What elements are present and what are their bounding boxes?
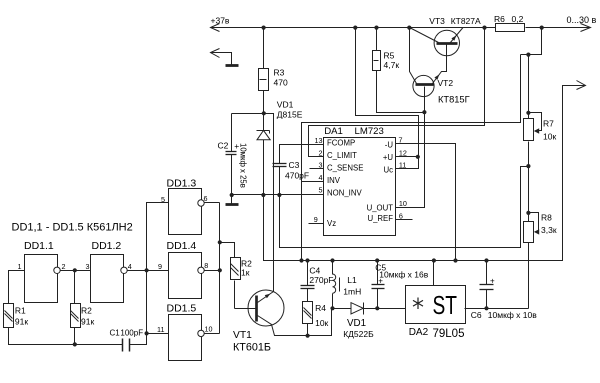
svg-text:+: + [490,277,495,286]
svg-text:7: 7 [399,136,403,145]
wire pin13 FCOMP to C3 [280,145,324,164]
svg-text:91к: 91к [81,317,94,327]
svg-text:U_OUT: U_OUT [367,204,394,213]
IC DA1 pin numbers [314,136,407,225]
svg-text:DD1,1 - DD1.5 К561ЛН2: DD1,1 - DD1.5 К561ЛН2 [12,222,133,234]
capacitor C4 [307,261,309,286]
wire R3 top lead [263,28,265,69]
svg-text:1к: 1к [241,267,250,277]
svg-text:12: 12 [399,149,407,158]
svg-text:5: 5 [161,195,165,204]
capacitor C2 [231,114,233,152]
gate DD1.2 [91,255,124,303]
capacitor C1 [122,339,124,352]
svg-text:4: 4 [319,173,323,182]
svg-text:10мкф x 10в: 10мкф x 10в [488,310,537,320]
svg-text:10к: 10к [543,132,556,142]
svg-text:C_SENSE: C_SENSE [327,164,363,173]
resistor R2 91k [71,304,81,328]
wire DD1.5 output [205,333,220,335]
gate pin numbers [18,194,213,334]
wire DD1.4 output [205,270,220,272]
wire R7 bottom to R8 [528,142,530,222]
wire DD1.3 output [205,202,220,204]
svg-text:2: 2 [319,148,323,157]
wire R2 91k top lead [74,271,76,304]
inductor L1 [332,261,334,275]
wire R5 top lead [376,28,378,51]
wire DD1.2 out to DD1.4 in [128,270,169,272]
transistor VT2 [413,75,434,96]
svg-text:+37в: +37в [211,16,230,26]
wire DD1.1 out to DD1.2 in [61,270,91,272]
svg-text:8: 8 [204,261,208,270]
wire +37v rail [211,27,496,29]
svg-text:VT2: VT2 [438,78,454,88]
svg-text:DD1.4: DD1.4 [167,240,197,252]
svg-text:100pF: 100pF [120,329,143,338]
regulator DA2 79L05 box [406,286,466,324]
svg-text:3,3к: 3,3к [541,225,557,235]
svg-text:C2: C2 [218,141,229,151]
svg-text:R6: R6 [494,14,505,24]
svg-text:VD1: VD1 [277,100,294,110]
svg-text:L1: L1 [347,275,357,285]
svg-text:3: 3 [86,262,90,271]
wire gate input bus [130,203,169,345]
svg-text:VD1: VD1 [347,318,366,329]
svg-text:1: 1 [18,262,22,271]
svg-text:VT3: VT3 [429,16,445,26]
wire pin10 U_OUT to VT2 base node [396,113,425,208]
svg-text:91к: 91к [15,317,28,327]
svg-text:10: 10 [399,199,407,208]
gate DD1.3 [169,189,202,235]
wire ground net horizontal [232,194,324,196]
svg-text:VT1: VT1 [233,330,252,341]
svg-text:U_REF: U_REF [367,214,393,223]
svg-text:R4: R4 [315,303,326,313]
resistor R1 [4,304,14,328]
wire pin11 stub [396,157,419,169]
svg-text:0,2: 0,2 [512,14,524,24]
svg-text:5: 5 [319,186,323,195]
node right output arrow [577,81,586,90]
wire common arrow stub [211,53,232,65]
svg-text:DD1.2: DD1.2 [92,240,122,252]
resistor R5 [373,51,381,71]
capacitor C3 [273,163,287,165]
svg-text:Uc: Uc [383,165,393,174]
op-amp DA1 LM723 body [324,138,396,236]
wire R5 bottom to VT2 base node [377,71,425,113]
svg-text:10мкф x 25в: 10мкф x 25в [239,143,248,188]
wire gate output bus [219,203,221,334]
resistor R3 [259,69,269,91]
svg-text:Vz: Vz [327,219,336,228]
svg-text:C1: C1 [110,329,121,338]
wire R2 bottom to VT1 base [234,281,236,309]
wire DA2 gnd pin [433,261,435,286]
svg-text:-U: -U [385,140,394,149]
svg-text:DD1.1: DD1.1 [24,240,54,252]
svg-text:10к: 10к [315,318,328,328]
svg-text:R7: R7 [543,119,554,129]
svg-text:79L05: 79L05 [433,328,465,340]
svg-text:DD1.5: DD1.5 [167,303,197,315]
node +37v input arrow [211,24,220,32]
wire R8 bottom lead [528,243,530,309]
svg-text:+U: +U [383,153,394,162]
wire node to VT1 emitter riser [264,114,274,292]
svg-text:NON_INV: NON_INV [327,189,362,198]
svg-text:R3: R3 [274,68,285,78]
svg-text:КТ827А: КТ827А [451,16,481,26]
wire R2 91k bottom lead [74,328,76,345]
svg-text:6: 6 [204,194,208,203]
svg-text:C6: C6 [471,310,482,320]
wire pin4 INV stub [302,181,324,183]
svg-text:470pF: 470pF [285,171,309,181]
node output arrow 0..30v [581,24,591,32]
svg-text:9: 9 [314,215,318,224]
svg-text:КД522Б: КД522Б [343,329,374,339]
svg-text:R8: R8 [541,213,552,223]
diode VD1 zener D815E [263,114,265,131]
wire R4 bottom lead [307,324,309,336]
svg-text:КТ815Г: КТ815Г [438,95,470,105]
svg-text:ST: ST [433,290,458,320]
svg-text:C_LIMIT: C_LIMIT [327,151,357,160]
svg-text:КТ601Б: КТ601Б [233,342,271,354]
wire R6 right to sense node [521,28,542,55]
transistor VT3 [434,30,459,55]
wire R3 bottom lead [263,91,265,114]
ground [231,195,233,204]
wire output rail after R6 [526,27,591,29]
capacitor C6 [486,261,488,285]
svg-text:13: 13 [315,136,323,145]
svg-text:DA1: DA1 [324,126,343,137]
regulator DA2 asterisk [413,298,423,310]
svg-text:INV: INV [327,176,341,185]
svg-text:470: 470 [274,78,288,88]
svg-text:11: 11 [157,325,164,334]
svg-text:FCOMP: FCOMP [327,138,355,147]
wire pin2 C_LIMIT loop to gnd rail [309,28,485,157]
svg-text:6: 6 [399,212,403,221]
wire pin11 stub [147,333,169,335]
svg-text:0...30 в: 0...30 в [567,15,597,25]
svg-text:11: 11 [399,161,406,170]
svg-text:10мкф x 16в: 10мкф x 16в [379,269,428,279]
wire DA2 output to R8 [465,308,529,310]
svg-text:DD1.3: DD1.3 [167,178,197,190]
wire R2 top from gate bus [220,243,235,258]
wire node to C2 [232,113,264,115]
ground [226,64,239,67]
wire pin7 -U to rail [396,144,456,261]
svg-text:9: 9 [158,262,162,271]
transistor VT1 [248,290,284,326]
svg-text:DA2: DA2 [409,327,429,338]
svg-text:270pF: 270pF [309,275,333,285]
diode VD1 KD522B [333,308,351,310]
svg-text:4: 4 [128,262,132,271]
svg-text:3: 3 [319,161,323,170]
svg-text:1mH: 1mH [343,287,361,297]
wire gnd rail2 [264,86,586,261]
wire supply to pins 12,11 [356,28,419,157]
wire gnd rail1 [280,167,529,248]
resistor R2 1k [231,258,241,280]
resistor R4 [303,302,313,324]
IC DA1 left pin names [327,138,393,228]
wire pin6 U_REF stub [396,219,413,221]
resistor R6 [496,24,525,32]
gate DD1.4 [169,253,202,299]
capacitor C5 [377,261,379,285]
svg-text:10: 10 [205,324,213,333]
svg-text:R2: R2 [81,306,92,316]
wire pin9 Vz stub [309,223,324,225]
svg-text:C3: C3 [289,160,300,170]
wire sense line to INV pin4 [302,55,521,261]
gate DD1.1 [25,255,58,303]
svg-text:LM723: LM723 [355,126,384,137]
wire sense node to R7 [528,55,530,119]
svg-text:2: 2 [62,262,66,271]
wire pin12 stub [396,156,418,158]
svg-text:Д815Е: Д815Е [277,110,303,120]
wire pin1 to R1 [9,271,25,304]
svg-text:R1: R1 [15,306,26,316]
resistor R7 potentiometer [524,119,534,141]
wire bottom oscillator [9,328,123,345]
wire pin3 C_SENSE stub [310,168,324,170]
svg-text:4,7к: 4,7к [384,60,400,70]
gate DD1.5 [169,315,202,361]
svg-text:R5: R5 [384,51,395,61]
node common output arrow left [211,49,220,58]
resistor R8 potentiometer [524,222,534,243]
svg-text:C4: C4 [309,266,320,276]
